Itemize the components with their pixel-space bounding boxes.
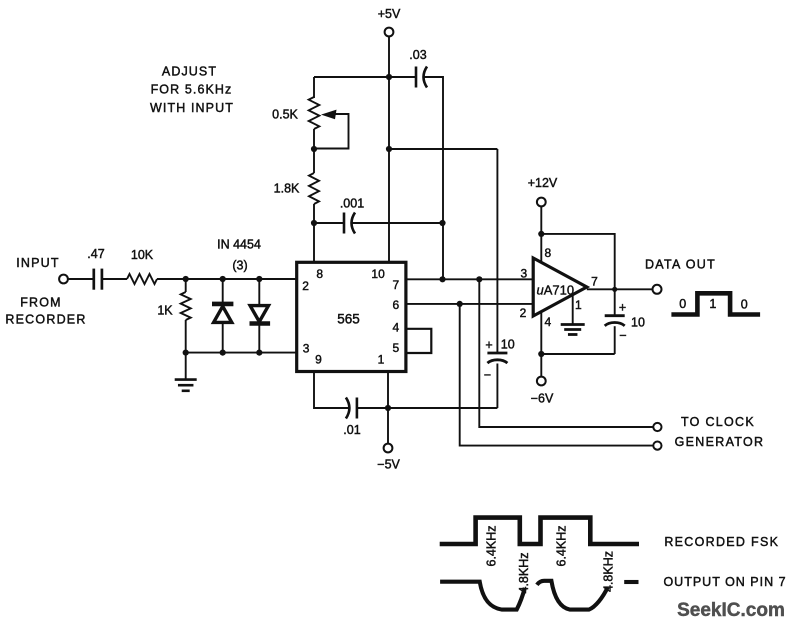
- junction pin7 cap03: [439, 276, 445, 282]
- wire R1 to pin2 node: [157, 278, 297, 280]
- wire .001 left: [314, 222, 344, 224]
- node diode2 top junction: [256, 276, 262, 282]
- wire .01 to C10 bottom: [357, 407, 498, 409]
- terminal +12V: [537, 198, 546, 207]
- junction pin7 clock: [476, 276, 482, 282]
- ground GND2: [561, 323, 585, 326]
- resistor 1.8K: [309, 173, 319, 204]
- svg-text:10: 10: [371, 267, 385, 281]
- terminal TO CLOCK: [653, 423, 661, 431]
- wire rail to pot: [313, 77, 315, 98]
- resistor 1K: [181, 292, 191, 320]
- wire to clock vertical: [479, 279, 653, 427]
- svg-text:.001: .001: [340, 197, 364, 211]
- waveform 0-1-0: [671, 293, 760, 314]
- capacitor .03: [415, 67, 418, 88]
- svg-text:+: +: [619, 301, 626, 315]
- resistor 10K: [127, 274, 157, 284]
- wire pin7 to comparator: [406, 278, 533, 280]
- wire C10a bottom: [496, 364, 498, 409]
- wire junction to 1.8K: [313, 149, 315, 173]
- svg-text:WITH INPUT: WITH INPUT: [150, 101, 234, 115]
- svg-text:uA710: uA710: [537, 282, 575, 297]
- svg-text:FROM: FROM: [20, 296, 62, 310]
- wire 1K to bottom rail: [185, 320, 187, 353]
- svg-text:INPUT: INPUT: [16, 256, 60, 270]
- wire pin1 down: [387, 372, 389, 444]
- wire to ground: [185, 353, 187, 380]
- svg-text:GENERATOR: GENERATOR: [675, 435, 765, 449]
- wire input to C1: [68, 278, 94, 280]
- junction D2 bottom: [256, 350, 262, 356]
- svg-text:0: 0: [741, 298, 748, 312]
- terminal -5V: [384, 444, 393, 453]
- IC U1 565 box: [297, 262, 406, 371]
- junction pot bottom: [311, 146, 317, 152]
- svg-text:6.4KHz: 6.4KHz: [554, 526, 568, 567]
- wire top rail left: [314, 76, 416, 78]
- svg-text:+: +: [485, 338, 492, 352]
- svg-text:2: 2: [520, 306, 527, 320]
- svg-text:−6V: −6V: [531, 392, 554, 406]
- junction 1.8K bottom: [311, 220, 317, 226]
- junction 1K bottom: [183, 350, 189, 356]
- svg-text:10: 10: [501, 338, 515, 352]
- junction pin7 cap: [612, 287, 617, 292]
- wire .001 right: [352, 222, 442, 224]
- op-amp U2 uA710: [533, 258, 587, 316]
- junction D1 bottom: [220, 350, 226, 356]
- wire +12V down: [540, 206, 542, 262]
- capacitor C10a: [487, 352, 507, 355]
- svg-text:ADJUST: ADJUST: [162, 65, 217, 79]
- capacitor .001: [343, 213, 346, 234]
- svg-text:TO CLOCK: TO CLOCK: [681, 415, 755, 429]
- svg-text:1K: 1K: [157, 304, 173, 318]
- svg-text:3: 3: [303, 342, 310, 356]
- potentiometer 0.5K: [309, 97, 320, 129]
- wire pin4 U2 down: [540, 312, 542, 377]
- svg-text:7: 7: [591, 274, 598, 288]
- svg-text:0: 0: [679, 297, 686, 311]
- junction rail y149: [386, 146, 392, 152]
- svg-text:10: 10: [631, 316, 645, 330]
- svg-text:1: 1: [709, 297, 716, 311]
- wire -6V rail right: [541, 353, 614, 355]
- wire +12V rail right: [541, 234, 614, 316]
- wire to generator vertical: [460, 304, 654, 446]
- terminal +5V: [385, 28, 394, 37]
- svg-text:IN 4454: IN 4454: [217, 238, 261, 252]
- svg-text:0.5K: 0.5K: [272, 108, 298, 122]
- svg-text:.01: .01: [343, 423, 360, 437]
- junction +5V rail: [386, 74, 392, 80]
- pot wiper arm: [314, 114, 349, 149]
- junction -5V node: [385, 405, 391, 411]
- svg-text:4: 4: [393, 320, 400, 334]
- diode D1: [222, 279, 224, 304]
- wire down to C-10 top: [496, 149, 498, 353]
- svg-text:565: 565: [337, 312, 360, 327]
- svg-text:9: 9: [315, 353, 322, 367]
- wire pin8 up: [313, 223, 315, 262]
- svg-text:(3): (3): [232, 259, 247, 273]
- junction .001 right: [439, 220, 445, 226]
- node A junction: [183, 276, 189, 282]
- svg-text:1: 1: [575, 298, 582, 312]
- svg-text:1.8K: 1.8K: [274, 181, 300, 195]
- wire pot to junction: [313, 129, 315, 149]
- wire pin9 down: [314, 372, 349, 409]
- svg-text:DATA OUT: DATA OUT: [645, 257, 716, 271]
- node diode1 top junction: [220, 276, 226, 282]
- terminal DATA OUT: [653, 285, 662, 294]
- wire pin6 to comparator: [406, 303, 533, 305]
- junction pin4 rail: [538, 351, 544, 357]
- junction pin8 rail: [538, 231, 544, 237]
- svg-text:.03: .03: [409, 48, 426, 62]
- wire 1.8K to junction: [313, 204, 315, 223]
- svg-text:2: 2: [302, 279, 309, 293]
- ground GND1: [175, 378, 197, 381]
- wire +5V down: [388, 36, 390, 77]
- terminal INPUT: [59, 275, 68, 284]
- svg-text:10K: 10K: [131, 248, 154, 262]
- pin4-pin5 bracket: [406, 329, 431, 353]
- capacitor .47: [92, 269, 95, 290]
- svg-text:RECORDED FSK: RECORDED FSK: [664, 535, 779, 549]
- diode D2: [258, 279, 260, 305]
- svg-text:+12V: +12V: [528, 176, 558, 190]
- wire bottom rail to pin 3: [186, 352, 297, 354]
- wire pin7 output: [587, 288, 653, 290]
- svg-text:5: 5: [393, 341, 400, 355]
- waveform OUTPUT ON PIN 7: [440, 582, 525, 610]
- junction pin6 gen: [457, 301, 463, 307]
- capacitor .01: [346, 398, 350, 419]
- wire C1 to R1: [102, 278, 127, 280]
- svg-text:4.8KHz: 4.8KHz: [601, 551, 615, 592]
- svg-text:−: −: [619, 329, 626, 343]
- svg-text:SeekIC.com: SeekIC.com: [677, 600, 785, 621]
- wire pin1 U2 down: [572, 295, 574, 325]
- svg-text:1: 1: [378, 353, 385, 367]
- terminal GENERATOR: [653, 442, 661, 450]
- svg-text:8: 8: [316, 267, 323, 281]
- svg-text:4.8KHz: 4.8KHz: [517, 553, 531, 594]
- svg-text:6.4KHz: 6.4KHz: [485, 526, 499, 567]
- wire .03 to corner: [424, 77, 443, 279]
- svg-text:−5V: −5V: [377, 458, 400, 472]
- svg-text:−: −: [484, 368, 491, 382]
- wire +5V main vertical to pin10: [388, 77, 390, 262]
- svg-text:4: 4: [544, 315, 551, 329]
- capacitor C10b: [605, 314, 625, 317]
- svg-text:6: 6: [393, 298, 400, 312]
- svg-text:8: 8: [544, 246, 551, 260]
- svg-text:RECORDER: RECORDER: [5, 313, 86, 327]
- svg-text:.47: .47: [87, 247, 104, 261]
- svg-text:7: 7: [393, 278, 400, 292]
- wire C10b bottom: [614, 326, 616, 354]
- wire rail y149: [389, 148, 497, 150]
- svg-text:FOR 5.6KHz: FOR 5.6KHz: [151, 82, 233, 96]
- svg-text:+5V: +5V: [378, 7, 401, 21]
- wire node A to 1K: [185, 279, 187, 292]
- waveform RECORDED FSK: [440, 518, 639, 544]
- svg-text:OUTPUT ON PIN 7: OUTPUT ON PIN 7: [663, 575, 786, 589]
- svg-text:3: 3: [520, 266, 527, 280]
- terminal -6V: [537, 377, 546, 386]
